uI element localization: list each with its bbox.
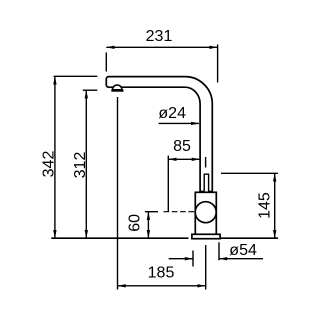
base plate [192,234,220,238]
svg-text:231: 231 [146,28,173,45]
dia 24 leader arrow [191,122,199,125]
ball joint circle [195,202,216,223]
svg-text:342: 342 [40,151,57,178]
dia 54 right extension tick [218,242,220,260]
dim 342 top arrow [53,76,56,84]
dashed hose line [164,211,197,213]
dim 85 right extension tick [205,157,207,168]
dia 54 right arrow [219,257,227,260]
dim 85 left extension line [167,156,169,213]
counter baseline right segment [220,237,278,239]
dim 312 bottom arrow [85,230,88,238]
dim 185 dimension line [118,285,206,287]
svg-text:312: 312 [72,152,89,179]
dim 185 right arrow [198,284,206,287]
dia 54 left extension tick [192,251,194,267]
dia 54 left arrow [185,257,193,260]
dia 24 leader line [159,122,199,124]
dim 60 dimension line [147,212,149,239]
svg-text:ø54: ø54 [229,242,257,259]
aerator dome [112,85,122,90]
faucet spout tube and neck outline [106,77,212,192]
dim 185 left extension centerline [117,97,119,290]
svg-text:60: 60 [127,214,144,232]
dim 342 bottom arrow [53,230,56,238]
faucet body [195,192,216,235]
svg-text:145: 145 [257,192,274,219]
dim 231 right arrow [209,46,217,49]
dim 145 bottom arrow [273,230,276,238]
dim 85 left arrow [168,158,176,161]
svg-text:185: 185 [148,264,175,281]
svg-text:85: 85 [173,138,191,155]
dim 231 dimension line [106,46,217,48]
handle lever rod [204,174,208,206]
dim 342 dimension line [54,76,56,238]
dim 60 top extension tick [145,211,158,213]
dim 60 top arrow [147,212,150,220]
aerator base bar [111,90,123,92]
dim 60 bottom arrow [147,230,150,238]
dim 145 top extension line [221,172,278,174]
dim 312 top arrow [85,90,88,98]
dim 231 right extension line [217,45,219,83]
dim 312 dimension line [85,90,87,238]
dim 85 dimension line [168,158,200,160]
dia 54 left leader line [169,258,193,260]
dim 185 right extension centerline [205,245,207,290]
dim 145 dimension line [274,173,276,238]
dim 231 left extension line [105,53,107,72]
counter baseline left segment [51,237,188,239]
dim 231 left arrow [106,46,114,49]
dia 54 right leader line [219,258,263,260]
dim 342 top extension tick [54,75,98,77]
svg-text:ø24: ø24 [158,105,186,122]
dim 85 right arrow [192,158,200,161]
dim 185 left arrow [118,284,126,287]
dim 145 top arrow [273,173,276,181]
dim 312 top extension tick [83,89,98,91]
